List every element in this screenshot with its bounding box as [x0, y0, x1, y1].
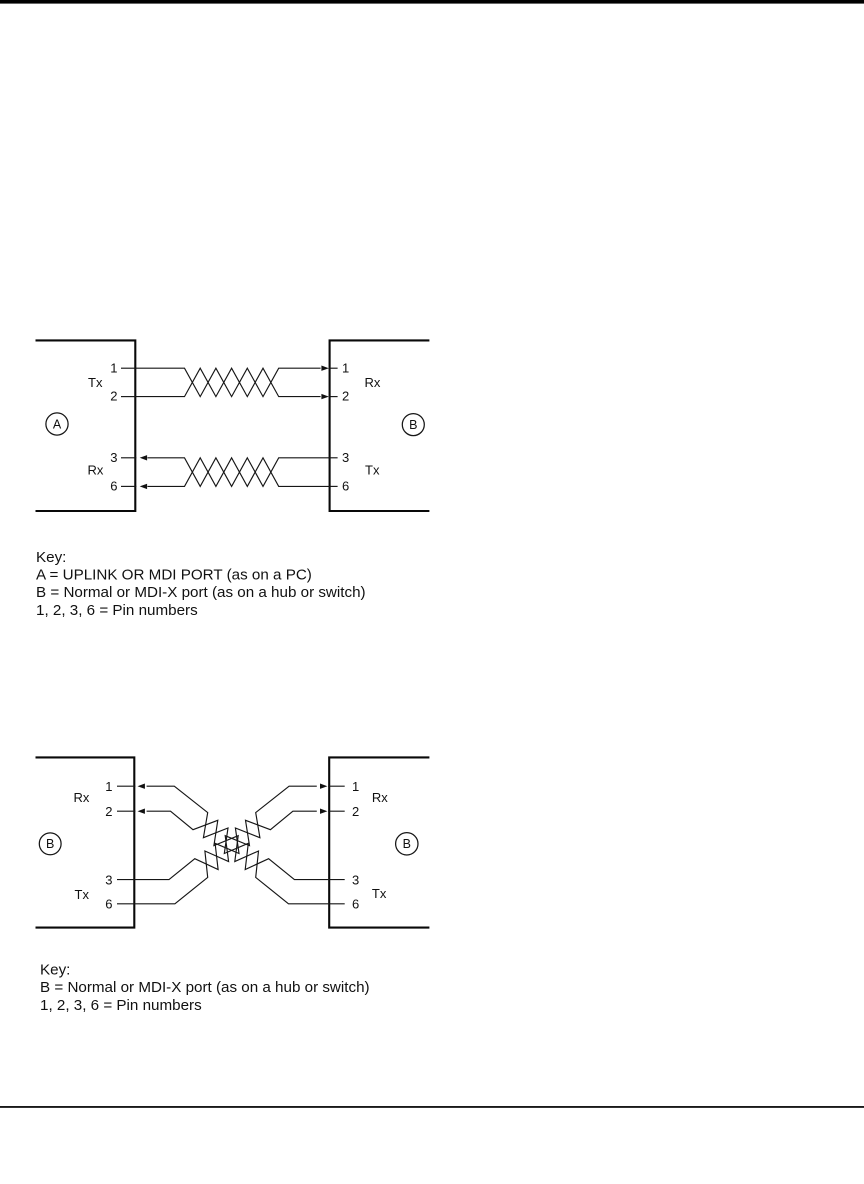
- arrowhead into right pin2: [320, 809, 327, 814]
- footer rule: [0, 1106, 864, 1108]
- svg-text:6: 6: [110, 478, 117, 493]
- node B circle label right: [396, 833, 418, 855]
- svg-text:3: 3: [110, 450, 117, 465]
- svg-text:3: 3: [105, 872, 112, 887]
- pin 3 stub left box: [117, 879, 135, 881]
- arrowhead into right pin1: [320, 784, 327, 789]
- svg-text:B: B: [409, 418, 417, 432]
- arrowhead into B pin2: [321, 394, 328, 399]
- port box B (MDI-X port, right): [330, 340, 430, 511]
- svg-text:B = Normal or MDI-X port (as o: B = Normal or MDI-X port (as on a hub or…: [40, 979, 370, 996]
- svg-text:Rx: Rx: [74, 790, 90, 805]
- svg-text:1: 1: [110, 360, 117, 375]
- pin 3 stub right box: [328, 879, 345, 881]
- wire crossover left pin2 to right pin6 (twisted): [147, 811, 329, 904]
- svg-text:1, 2, 3, 6 = Pin numbers: 1, 2, 3, 6 = Pin numbers: [36, 602, 198, 619]
- svg-text:Rx: Rx: [365, 375, 381, 390]
- arrowhead into B pin1: [321, 366, 328, 371]
- svg-text:Tx: Tx: [75, 887, 90, 902]
- svg-text:2: 2: [110, 389, 117, 404]
- svg-text:3: 3: [342, 450, 349, 465]
- svg-text:Rx: Rx: [88, 463, 104, 478]
- pin 2 stub box A: [121, 396, 136, 398]
- pin 2 stub box B: [329, 396, 338, 398]
- svg-text:A = UPLINK OR MDI PORT (as on: A = UPLINK OR MDI PORT (as on a PC): [36, 567, 312, 584]
- svg-text:1: 1: [342, 360, 349, 375]
- arrowhead into left pin2: [138, 809, 145, 814]
- pin 6 stub box A: [121, 485, 136, 487]
- svg-text:2: 2: [105, 804, 112, 819]
- pin 3 stub box A: [121, 457, 136, 459]
- pin 3 stub box B: [329, 457, 338, 459]
- svg-text:1: 1: [105, 779, 112, 794]
- svg-text:2: 2: [352, 804, 359, 819]
- svg-text:Rx: Rx: [372, 790, 388, 805]
- pin 6 stub left box: [117, 903, 135, 905]
- svg-text:A: A: [53, 417, 62, 431]
- wire twisted pair Tx A pin1 to Rx B pin1: [136, 368, 321, 396]
- svg-text:B: B: [403, 837, 411, 851]
- svg-text:Key:: Key:: [36, 549, 66, 566]
- header rule: [0, 0, 864, 4]
- svg-text:1: 1: [352, 779, 359, 794]
- svg-text:6: 6: [342, 478, 349, 493]
- arrowhead into A pin6: [140, 484, 147, 489]
- node B circle label: [402, 414, 424, 436]
- node A circle label: [46, 413, 68, 435]
- wire twisted pair Tx A pin2 to Rx B pin2: [136, 368, 321, 396]
- svg-text:2: 2: [342, 389, 349, 404]
- svg-text:B = Normal or MDI-X port (as o: B = Normal or MDI-X port (as on a hub or…: [36, 584, 366, 601]
- svg-text:Key:: Key:: [40, 962, 70, 979]
- port box A (uplink/MDI port): [36, 340, 136, 511]
- svg-text:Tx: Tx: [372, 886, 387, 901]
- arrowhead into left pin1: [138, 784, 145, 789]
- svg-text:B: B: [46, 837, 54, 851]
- pin 2 stub right box: [328, 810, 345, 812]
- pin 1 stub box B: [329, 367, 338, 369]
- svg-text:3: 3: [352, 872, 359, 887]
- port box B left (MDI-X): [36, 757, 135, 927]
- pin 1 stub left box: [117, 785, 135, 787]
- svg-text:Tx: Tx: [365, 463, 380, 478]
- wire crossover left pin1 to right pin3 (twisted): [147, 786, 329, 879]
- arrowhead into A pin3: [140, 455, 147, 460]
- wire crossover right pin1 to left pin3 (twisted): [135, 786, 316, 879]
- pin 2 stub left box: [117, 810, 135, 812]
- node B circle label left: [39, 833, 61, 855]
- wire crossover right pin2 to left pin6 (twisted): [135, 811, 316, 904]
- wire twisted pair Tx B pin6 to Rx A pin6: [147, 458, 328, 487]
- svg-text:6: 6: [352, 897, 359, 912]
- svg-text:1, 2, 3, 6 = Pin numbers: 1, 2, 3, 6 = Pin numbers: [40, 997, 202, 1014]
- pin 1 stub right box: [328, 785, 345, 787]
- pin 6 stub box B: [329, 485, 338, 487]
- pin 6 stub right box: [328, 903, 345, 905]
- wire twisted pair Tx B pin3 to Rx A pin3: [147, 458, 328, 487]
- port box B right (MDI-X): [329, 757, 429, 927]
- svg-text:Tx: Tx: [88, 375, 103, 390]
- pin 1 stub box A: [121, 367, 136, 369]
- svg-text:6: 6: [105, 897, 112, 912]
